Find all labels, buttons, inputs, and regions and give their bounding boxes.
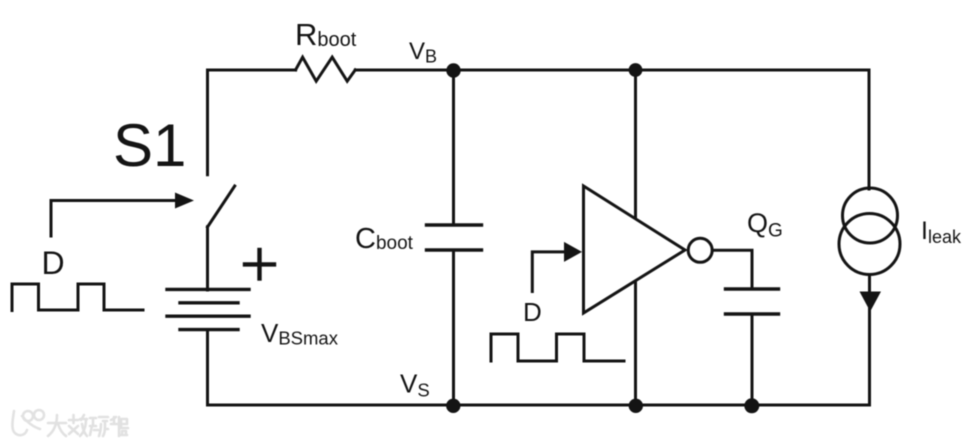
svg-text:VBSmax: VBSmax (261, 318, 339, 349)
svg-text:D: D (42, 245, 65, 281)
arrowhead current direction down (860, 292, 882, 312)
svg-text:S1: S1 (113, 112, 186, 179)
wire QG bottom lead (751, 314, 754, 405)
square wave D (left) (12, 284, 143, 311)
wire bottom rail VS net (208, 404, 870, 407)
wire Cboot top lead (452, 70, 455, 225)
switch S1 blade (208, 186, 235, 227)
svg-text:VB: VB (409, 38, 437, 67)
square wave D (right) (491, 334, 624, 361)
svg-text:VS: VS (400, 369, 430, 401)
svg-text:Ileak: Ileak (921, 217, 962, 247)
svg-text:Cboot: Cboot (355, 223, 414, 255)
svg-text:Rboot: Rboot (295, 17, 357, 52)
watermark logo (12, 410, 44, 435)
current source I1 Ileak circles (843, 188, 898, 243)
wire inverter branch vertical (634, 70, 637, 405)
wire top rail VB net right part (355, 70, 869, 189)
resistor R1 Rboot (296, 57, 356, 81)
wire S1 control arrow (51, 201, 176, 237)
wire switch lower lead to battery (206, 227, 209, 290)
node VS dot (446, 399, 460, 413)
battery V1 VBSmax plates (167, 288, 249, 291)
wire bubble to QG capacitor (712, 250, 752, 289)
wire inverter control arrow (532, 252, 564, 292)
node bottom mid dot (629, 399, 643, 413)
inverter output bubble (688, 238, 712, 262)
wire top rail VB net left part (208, 70, 296, 175)
svg-text:QG: QG (747, 208, 783, 242)
wire battery bottom lead (206, 330, 209, 405)
node QG bottom dot (744, 398, 759, 413)
svg-text:D: D (523, 297, 542, 327)
capacitor C1 Cboot (427, 223, 482, 226)
node VB dot (446, 63, 460, 77)
capacitor C2 QG (726, 287, 779, 290)
wire current source bottom lead (868, 275, 871, 406)
arrowhead S1 control (175, 193, 194, 209)
wire Cboot bottom lead (452, 250, 455, 405)
op-amp U1 inverter triangle (584, 186, 686, 313)
plus sign battery polarity (257, 250, 261, 279)
arrowhead inverter control (564, 242, 582, 262)
watermark text 大数跨境 approximation (48, 415, 128, 436)
node top mid dot (629, 63, 643, 77)
